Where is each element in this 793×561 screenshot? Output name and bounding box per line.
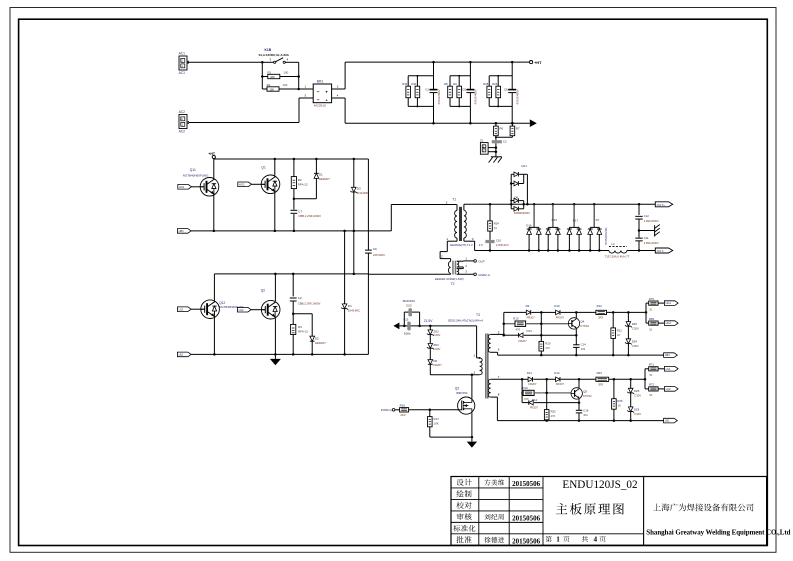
- svg-text:1N4148C: 1N4148C: [348, 308, 360, 312]
- wire T1 pri bottom to T2: [447, 240, 457, 242]
- igbt Q11: [200, 178, 219, 197]
- resistor R30: [407, 76, 409, 86]
- svg-text:AC1: AC1: [179, 71, 186, 75]
- wire Q11 emitter to lower rail: [213, 195, 215, 231]
- wire lower bridge top rail: [214, 273, 368, 275]
- svg-text:C13: C13: [403, 317, 409, 321]
- svg-text:AC1: AC1: [179, 52, 186, 56]
- net arrow left 21.5V: [393, 323, 399, 330]
- wire T3 sec2 top to block2: [491, 378, 522, 380]
- svg-text:1: 1: [556, 536, 560, 544]
- rectifier diode pair D16: [533, 203, 536, 206]
- svg-text:+HT: +HT: [208, 152, 216, 156]
- connector Z1: [480, 143, 488, 155]
- wire Q1 collector: [274, 159, 276, 176]
- resistor R28: [488, 76, 490, 86]
- wire bottom bus: [345, 122, 530, 124]
- wire block1 left vertical: [503, 312, 505, 335]
- node Q5 collector: [578, 378, 581, 381]
- net label LG2 tag: [237, 307, 251, 312]
- svg-text:D3: D3: [357, 187, 361, 191]
- wire BR1 pin 2 to top bus: [332, 88, 346, 90]
- zener D4: [344, 231, 346, 304]
- wire LG1 to Q12 gate: [191, 308, 205, 310]
- node output branch block1: [645, 311, 648, 314]
- wire block2 mid vertical to R22: [546, 379, 548, 409]
- svg-text:FR207: FR207: [433, 363, 442, 367]
- wire BR1 pin 3 to AC2: [299, 97, 313, 99]
- chassis ground at C11 C12 midpoint: [638, 229, 641, 232]
- svg-text:D1: D1: [319, 173, 323, 177]
- net label LG1 output tag: [664, 367, 678, 372]
- wire Q1 emitter: [274, 193, 276, 231]
- wire R3 to bottom rail: [292, 335, 294, 355]
- resistor R12: [576, 311, 596, 313]
- svg-text:D16: D16: [526, 224, 532, 228]
- svg-text:GND2-A: GND2-A: [478, 273, 491, 277]
- transistor Q5: [571, 388, 582, 399]
- svg-text:51: 51: [494, 226, 497, 230]
- capacitor C13: [407, 322, 410, 331]
- svg-text:100: 100: [270, 75, 275, 79]
- wire R6 bottom to C2: [495, 136, 497, 141]
- svg-text:R26: R26: [492, 82, 497, 86]
- svg-text:FR207: FR207: [528, 382, 537, 386]
- zener DZ4: [627, 326, 629, 339]
- svg-text:PWM-Q: PWM-Q: [381, 408, 393, 412]
- svg-text:470UF/400V: 470UF/400V: [474, 89, 478, 104]
- svg-text:R3: R3: [298, 325, 302, 329]
- svg-text:51: 51: [649, 393, 652, 397]
- zener ZD3: [429, 335, 431, 344]
- diode pack D21: [510, 203, 513, 206]
- net label LG1 tag: [177, 307, 191, 312]
- wire output branch vertical block2: [644, 369, 646, 389]
- net label OUT+ tag: [655, 202, 672, 207]
- svg-text:100n: 100n: [404, 331, 411, 335]
- svg-text:C30V: C30V: [632, 327, 639, 331]
- terminal +HT: [530, 61, 533, 64]
- net label LB1 output tag: [664, 418, 678, 423]
- svg-text:C30V: C30V: [634, 393, 641, 397]
- transformer T1: [456, 205, 458, 211]
- svg-text:AC2: AC2: [179, 129, 186, 133]
- wire D8 to primary bottom: [429, 364, 431, 375]
- svg-text:R1: R1: [267, 70, 271, 74]
- svg-text:FRD60F60N: FRD60F60N: [514, 211, 530, 215]
- svg-text:C11: C11: [644, 236, 649, 240]
- resistor R23: [596, 377, 609, 381]
- node Q5 emitter: [578, 401, 581, 404]
- svg-text:STPR60F60N: STPR60F60N: [604, 228, 608, 245]
- wire C3 branch to D2: [293, 313, 312, 315]
- svg-text:C30V: C30V: [634, 412, 641, 416]
- resistor R13 base feed: [504, 323, 515, 325]
- wire upper bridge top rail: [214, 158, 369, 160]
- diode D2: [310, 336, 315, 341]
- svg-text:21.5V: 21.5V: [424, 319, 433, 323]
- wire block1 bottom rail: [498, 354, 664, 356]
- rectifier diode pair D23: [552, 203, 555, 206]
- svg-text:470: 470: [551, 414, 556, 418]
- wire T2 sec pin3 to GND2-A terminal: [457, 273, 474, 275]
- transistor Q4: [568, 318, 579, 329]
- resistor R22: [544, 410, 549, 420]
- svg-text:HER207: HER207: [315, 341, 326, 345]
- svg-text:R31: R31: [412, 82, 417, 86]
- chassis ground below C2: [491, 156, 502, 158]
- wire cap-group2 top rail: [450, 75, 470, 77]
- wire C3 to R3: [292, 301, 294, 324]
- svg-text:DZ3: DZ3: [632, 322, 638, 326]
- resistor R31: [416, 76, 418, 86]
- svg-text:D17: D17: [573, 218, 579, 222]
- svg-text:R30: R30: [402, 82, 407, 86]
- svg-text:D2: D2: [315, 336, 319, 340]
- svg-text:HG1: HG1: [666, 301, 672, 305]
- wire Q2 collector: [274, 274, 276, 301]
- svg-text:EE30#A(NT),T1:3: EE30#A(NT),T1:3: [450, 243, 473, 247]
- svg-text:C7: C7: [298, 209, 302, 213]
- resistor R16: [395, 409, 400, 411]
- svg-text:D6: D6: [514, 195, 518, 199]
- svg-text:C30V: C30V: [433, 333, 440, 337]
- svg-text:FR207: FR207: [556, 315, 565, 319]
- node Q4 emitter: [575, 334, 578, 337]
- svg-text:RPA-22: RPA-22: [298, 183, 308, 187]
- svg-text:S1,A:12VDC;3L;A:30A: S1,A:12VDC;3L;A:30A: [259, 53, 290, 57]
- wire Q2 emitter to ground rail: [274, 318, 276, 354]
- wire Q3 source to ground: [471, 413, 473, 437]
- wire lower bridge bottom rail: [191, 353, 368, 355]
- svg-text:KTP42: KTP42: [583, 394, 592, 398]
- svg-text:R2: R2: [298, 178, 302, 182]
- svg-text:LG2: LG2: [666, 387, 671, 391]
- svg-text:T157,26A,0.4UH,7T: T157,26A,0.4UH,7T: [605, 255, 630, 259]
- zener ZD2: [429, 326, 431, 330]
- svg-text:HB1: HB1: [665, 353, 671, 357]
- wire C2 to ground: [495, 143, 497, 157]
- wire cap-group3 bottom rail: [489, 105, 512, 107]
- title block row label 设计: [457, 479, 464, 486]
- node D4 top: [343, 230, 346, 233]
- net label HG1 tag: [178, 185, 192, 190]
- wire rectifier bottom bus: [475, 250, 609, 252]
- title block row lines: [451, 487, 543, 489]
- svg-text:225,630V: 225,630V: [373, 253, 385, 257]
- svg-text:100: 100: [269, 88, 274, 92]
- svg-text:OUT-: OUT-: [657, 249, 664, 253]
- capacitor C3: [292, 273, 295, 276]
- svg-text:R6: R6: [499, 126, 503, 130]
- svg-text:T3: T3: [476, 313, 480, 317]
- node Q4 collector: [575, 311, 578, 314]
- svg-text:EE20,24H,4Ts2Ts2L/W4+4: EE20,24H,4Ts2Ts2L/W4+4: [448, 318, 483, 322]
- svg-text:20150506: 20150506: [512, 537, 541, 545]
- net label HB1 output tag: [664, 353, 678, 358]
- resistor R71: [645, 368, 649, 370]
- node R13 row: [540, 322, 543, 325]
- inductor L2: [609, 245, 627, 247]
- resistor R26: [497, 76, 499, 86]
- svg-text:4: 4: [594, 536, 598, 544]
- current transformer T2: [452, 261, 454, 275]
- svg-text:R70: R70: [649, 297, 655, 301]
- zener D3: [353, 158, 356, 161]
- capacitor C1 electrolytic: [430, 89, 438, 91]
- svg-text:IRFP260: IRFP260: [456, 391, 468, 395]
- connector AC1: [179, 56, 187, 70]
- net label LG2 output tag: [664, 387, 678, 392]
- wire T3 sec1 bottom: [491, 351, 498, 353]
- wire 21.5V rail: [399, 325, 476, 327]
- svg-text:R22: R22: [551, 410, 557, 414]
- svg-text:+HT: +HT: [534, 61, 542, 65]
- node R19 row: [545, 392, 548, 395]
- net label HG2 tag: [238, 182, 252, 187]
- wire T3 sec2 bottom: [491, 396, 498, 398]
- svg-text:FR207: FR207: [527, 315, 536, 319]
- title block row label 校对: [456, 502, 463, 509]
- diode D8: [429, 348, 431, 360]
- ground symbol below Q3: [471, 437, 473, 442]
- svg-text:OUT-: OUT-: [478, 259, 485, 263]
- svg-text:LG1: LG1: [666, 367, 671, 371]
- net label LB1 tag lower return: [177, 352, 191, 357]
- resistor R2: [262, 88, 267, 90]
- wire junction to switch: [262, 61, 273, 63]
- resistor R3: [291, 324, 296, 334]
- svg-text:Q11: Q11: [190, 168, 196, 172]
- svg-text:L2: L2: [611, 242, 615, 246]
- svg-text:LB1: LB1: [179, 353, 184, 357]
- svg-text:HG2: HG2: [666, 321, 672, 325]
- svg-text:C12: C12: [644, 214, 650, 218]
- node Q2 collector: [274, 273, 277, 276]
- svg-text:470: 470: [516, 327, 521, 331]
- wire T2 sec mid bracket: [457, 266, 464, 268]
- node D9-D10: [540, 311, 543, 314]
- node output branch block2: [644, 378, 647, 381]
- svg-text:BR1: BR1: [317, 79, 324, 83]
- rectifier diode pair D17: [573, 203, 576, 206]
- svg-text:10K: 10K: [434, 421, 439, 425]
- wire T3 primary bottom: [430, 374, 479, 376]
- capacitor C12: [638, 203, 641, 206]
- svg-text:T2: T2: [451, 282, 455, 286]
- svg-text:R28: R28: [483, 82, 488, 86]
- page row 第 1 页 共 4 页: [546, 536, 552, 542]
- svg-text:T1: T1: [452, 198, 456, 202]
- svg-text:−: −: [317, 90, 320, 96]
- resistor R7: [511, 122, 514, 125]
- svg-text:AC2: AC2: [179, 110, 186, 114]
- resistor R6: [495, 122, 498, 125]
- diode D11: [522, 378, 528, 380]
- node 21.5V: [429, 325, 432, 328]
- designer name 方美维: [484, 479, 490, 485]
- svg-text:C2: C2: [503, 140, 507, 144]
- svg-text:HG1: HG1: [179, 185, 185, 189]
- resistor R8: [449, 76, 451, 86]
- svg-text:LB1: LB1: [665, 419, 670, 423]
- svg-text:3.3NF,2000V: 3.3NF,2000V: [644, 219, 659, 223]
- diode D13 row: [504, 334, 519, 336]
- capacitor C6 electrolytic: [508, 89, 516, 91]
- net label HB1 tag upper return: [177, 229, 191, 234]
- svg-text:1N4148C: 1N4148C: [357, 191, 369, 195]
- svg-text:C6: C6: [504, 88, 508, 92]
- svg-text:Shanghai Greatway Welding Equi: Shanghai Greatway Welding Equipment CO.,…: [646, 529, 790, 537]
- node block2 top left: [521, 378, 524, 381]
- wire left vertical to R1 R2 branches: [261, 62, 263, 89]
- diode D20 snubber loop: [403, 312, 405, 326]
- resistor R25: [613, 378, 616, 381]
- wire cap-group2 vertical to bottom bus: [469, 93, 471, 123]
- svg-text:MC3510: MC3510: [314, 104, 326, 108]
- svg-text:C14: C14: [581, 342, 587, 346]
- wire L2 to OUT-: [627, 250, 655, 252]
- svg-text:KTP42: KTP42: [580, 324, 589, 328]
- svg-text:+: +: [326, 99, 328, 103]
- wire T1 sec bottom to output bus: [464, 240, 475, 242]
- resistor R21: [612, 311, 615, 314]
- svg-text:R24: R24: [494, 222, 500, 226]
- svg-text:R19: R19: [523, 386, 529, 390]
- svg-text:R13: R13: [513, 316, 519, 320]
- terminal +HT upper bridge: [212, 155, 215, 158]
- title block row label 审核: [457, 513, 464, 520]
- svg-text:C30V: C30V: [632, 344, 639, 348]
- wire T3 sec1 top to block1: [491, 333, 504, 335]
- svg-text:R69: R69: [649, 317, 655, 321]
- svg-text:100: 100: [283, 70, 288, 74]
- wire bottom rail to T1 pin2: [390, 205, 392, 231]
- wire output branch vertical: [645, 303, 647, 323]
- svg-text:20150506: 20150506: [512, 514, 541, 522]
- svg-text:MUR160: MUR160: [403, 299, 415, 303]
- svg-text:C1: C1: [425, 88, 429, 92]
- svg-text:HER207: HER207: [319, 177, 330, 181]
- resistor R69: [646, 322, 649, 324]
- zener DZ6: [630, 393, 632, 407]
- ground symbol below Q2: [274, 354, 276, 359]
- capacitor C5 electrolytic: [466, 89, 474, 91]
- diode D14 row: [522, 402, 529, 404]
- svg-text:51: 51: [649, 373, 652, 377]
- wire cap-group1 vertical to bottom bus: [433, 93, 435, 123]
- svg-text:3R3: 3R3: [598, 382, 603, 386]
- igbt Q1: [261, 175, 280, 194]
- svg-text:NGTB40N60FLWG: NGTB40N60FLWG: [183, 174, 209, 178]
- wire rectifier top bus: [464, 203, 655, 205]
- wire T2 return rail to lower bridge: [368, 273, 450, 275]
- svg-text:D12: D12: [554, 371, 560, 375]
- capacitor C9: [365, 249, 372, 251]
- resistor R1: [262, 76, 268, 78]
- wire cap-group1 bottom rail: [408, 105, 433, 107]
- wire R17 to source rail: [429, 427, 431, 437]
- svg-text:LG1: LG1: [179, 307, 184, 311]
- resistor R72: [645, 388, 649, 390]
- diode D9: [526, 310, 530, 315]
- capacitor C2: [492, 140, 502, 143]
- svg-text:C5: C5: [462, 88, 466, 92]
- wire T2 sec pin1 to OUT- terminal: [457, 260, 464, 262]
- svg-text:K1B: K1B: [265, 48, 272, 52]
- igbt Q12: [201, 300, 220, 319]
- wire +HT top bus: [345, 61, 529, 63]
- wire HG2 to Q1 gate: [252, 183, 266, 185]
- svg-text:HB1: HB1: [179, 229, 185, 233]
- diode D1: [315, 158, 318, 161]
- resistor R20: [539, 341, 544, 351]
- svg-text:103: 103: [583, 413, 588, 417]
- wire upper bridge bottom rail: [191, 230, 391, 232]
- svg-text:EE30#A-3C96#(1.5/W): EE30#A-3C96#(1.5/W): [435, 277, 464, 281]
- svg-text:2K2: 2K2: [400, 413, 406, 417]
- node R1 right: [297, 75, 300, 78]
- zener DZ5: [629, 378, 632, 381]
- svg-text:51: 51: [649, 307, 652, 311]
- svg-text:R72: R72: [649, 383, 655, 387]
- net label HG2 output tag: [664, 321, 678, 326]
- bridge rectifier BR1: [313, 84, 331, 103]
- svg-text:100: 100: [283, 83, 288, 87]
- svg-text:D14: D14: [532, 398, 538, 402]
- capacitor C19: [578, 403, 580, 410]
- svg-text:2.2NF,2KV: 2.2NF,2KV: [496, 243, 509, 247]
- svg-text:Q4: Q4: [580, 320, 584, 324]
- snubber R24 C10: [489, 203, 492, 206]
- svg-text:C10: C10: [496, 239, 502, 243]
- svg-text:R12: R12: [597, 304, 603, 308]
- wire D1 bottom to R2 chain: [294, 198, 317, 200]
- wire BR1 pin 4 to bottom bus: [332, 97, 346, 99]
- svg-text:C3: C3: [298, 296, 302, 300]
- svg-text:D20: D20: [406, 304, 412, 308]
- svg-text:470UF/400V: 470UF/400V: [437, 89, 441, 104]
- svg-text:C9: C9: [373, 247, 377, 251]
- wire cap-group3 top rail: [489, 75, 512, 77]
- capacitor C7: [291, 209, 298, 211]
- capacitor C11: [635, 237, 642, 239]
- diode D12: [556, 377, 560, 382]
- svg-text:D13: D13: [527, 329, 533, 333]
- svg-text:FR207: FR207: [530, 405, 539, 409]
- svg-text:Q2: Q2: [261, 289, 266, 293]
- node switch-left junction: [261, 61, 264, 64]
- svg-text:CBB,2.2NF,1600V: CBB,2.2NF,1600V: [298, 302, 321, 306]
- wire to BR1 pin 1: [299, 88, 314, 90]
- igbt Q2: [261, 300, 280, 319]
- net label OUT- tag: [655, 248, 672, 253]
- node R1 left: [261, 75, 264, 78]
- svg-text:Q1: Q1: [261, 165, 266, 169]
- svg-text:D7: D7: [596, 218, 600, 222]
- wire cap-group1 top rail: [408, 75, 433, 77]
- svg-text:R7: R7: [516, 126, 520, 130]
- svg-text:3R3: 3R3: [598, 316, 603, 320]
- svg-text:R25: R25: [617, 399, 623, 403]
- svg-text:Q5: Q5: [583, 390, 587, 394]
- svg-text:D21: D21: [521, 164, 527, 168]
- wire cap-group1 vertical from top bus: [433, 62, 435, 89]
- svg-text:470: 470: [545, 346, 550, 350]
- title block row label 标准化: [453, 525, 460, 532]
- svg-text:470: 470: [524, 397, 529, 401]
- svg-text:DZ4: DZ4: [632, 339, 638, 343]
